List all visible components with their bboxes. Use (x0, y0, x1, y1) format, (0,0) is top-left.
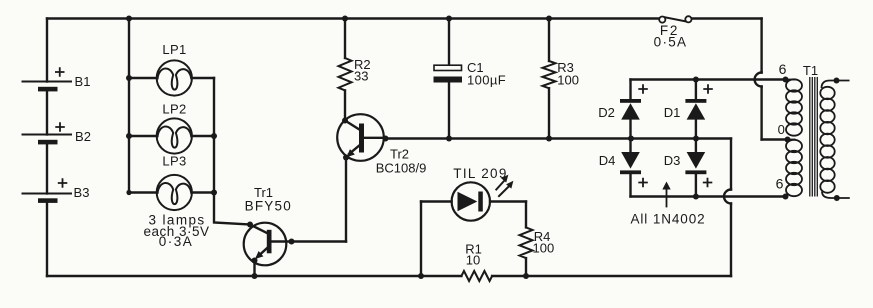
svg-text:B3: B3 (74, 185, 90, 200)
svg-text:BC108/9: BC108/9 (376, 161, 427, 176)
svg-text:Tr2: Tr2 (390, 147, 409, 162)
svg-text:D2: D2 (598, 105, 615, 120)
svg-text:0: 0 (778, 122, 785, 137)
svg-text:T1: T1 (803, 63, 818, 78)
svg-text:6: 6 (776, 176, 784, 192)
svg-text:All 1N4002: All 1N4002 (630, 212, 705, 227)
svg-text:LP2: LP2 (162, 102, 186, 117)
svg-text:100: 100 (533, 240, 555, 255)
svg-text:B1: B1 (75, 74, 91, 89)
svg-text:D1: D1 (664, 105, 681, 120)
svg-text:0·3A: 0·3A (159, 234, 194, 249)
svg-text:BFY50: BFY50 (245, 198, 292, 213)
svg-text:D3: D3 (664, 153, 681, 168)
svg-text:LP1: LP1 (162, 42, 186, 57)
svg-text:100: 100 (557, 73, 579, 88)
svg-text:D4: D4 (599, 153, 616, 168)
svg-text:0·5A: 0·5A (654, 34, 688, 49)
svg-text:33: 33 (354, 69, 368, 84)
svg-text:B2: B2 (75, 129, 91, 144)
svg-text:LP3: LP3 (162, 153, 186, 168)
svg-text:10: 10 (466, 253, 480, 268)
svg-text:100µF: 100µF (467, 73, 506, 88)
svg-text:6: 6 (779, 61, 787, 77)
svg-text:TIL 209: TIL 209 (453, 166, 507, 181)
